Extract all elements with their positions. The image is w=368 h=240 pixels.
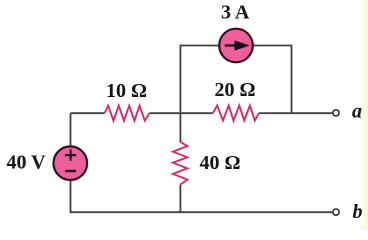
- label 40 V: [7, 152, 47, 174]
- svg-text:b: b: [353, 201, 363, 223]
- svg-text:3 A: 3 A: [221, 2, 250, 24]
- resistor 20 ohm (zigzag): [213, 106, 259, 121]
- terminal b (open circle): [333, 209, 339, 215]
- svg-text:40 Ω: 40 Ω: [200, 152, 241, 174]
- label 40 ohm: [200, 152, 241, 174]
- label 3 A: [221, 2, 250, 24]
- wire middle horizontal rail (center segment): [149, 112, 213, 114]
- current source 3A (circle with right arrow): [219, 29, 253, 63]
- page edge tint: [357, 0, 368, 230]
- wire left vertical (node below 10-ohm to bottom rail): [70, 113, 72, 212]
- wire middle vertical branch (top part, node to 40-ohm): [179, 45, 181, 142]
- resistor 10 ohm (zigzag): [105, 106, 150, 121]
- svg-text:40 V: 40 V: [7, 152, 47, 174]
- label 20 ohm: [215, 79, 256, 101]
- wire right loop vertical: [291, 45, 293, 114]
- voltage source V 40V (circle with plus-minus): [54, 146, 88, 180]
- label b: [353, 201, 363, 223]
- wire middle horizontal rail (right segment to terminal a): [259, 112, 333, 114]
- label 10 ohm: [106, 80, 147, 102]
- svg-text:a: a: [352, 101, 362, 123]
- wire bottom rail: [70, 211, 333, 213]
- wire middle vertical branch (bottom part, 40-ohm to bottom rail): [179, 185, 181, 213]
- wire middle horizontal rail (left segment): [71, 112, 105, 114]
- resistor 40 ohm (vertical zigzag): [173, 142, 188, 185]
- svg-text:20 Ω: 20 Ω: [215, 79, 256, 101]
- svg-text:10 Ω: 10 Ω: [106, 80, 147, 102]
- terminal a (open circle): [333, 110, 339, 116]
- label a: [352, 101, 362, 123]
- wire top loop horizontal (through current source): [180, 45, 291, 47]
